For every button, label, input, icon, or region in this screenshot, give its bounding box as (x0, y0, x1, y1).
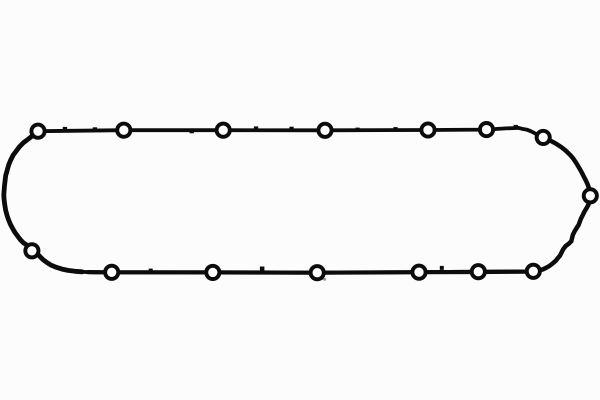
bolt hole top 7 (537, 131, 550, 144)
bolt hole bottom 2 (206, 266, 219, 279)
bolt holes (black rings, white centers) (25, 123, 597, 279)
bolt hole right end (584, 189, 597, 202)
tick marks on top rail (63, 125, 518, 133)
bolt hole top 6 (480, 123, 493, 136)
bolt hole bottom 5 (472, 265, 485, 278)
gasket outline (closed centerline loop) (4, 128, 591, 273)
right end curve (thicker stroke, with S-wiggle) (533, 137, 590, 271)
gray smudge below bottom-middle bolt hole (319, 276, 327, 281)
bolt hole bottom 3 (311, 266, 324, 279)
bolt hole left end (25, 244, 38, 257)
bolt hole top 3 (217, 124, 230, 137)
bolt hole bottom 6 (527, 265, 540, 278)
bolt hole top 2 (117, 124, 130, 137)
bolt hole bottom 4 (412, 266, 425, 279)
bolt hole top 5 (421, 123, 434, 136)
bottom rail (slightly thicker) (88, 272, 533, 273)
bolt hole top 1 (31, 125, 44, 138)
tick marks on bottom rail (149, 266, 444, 273)
left end arc (thicker stroke) (4, 131, 82, 272)
bolt hole top 4 (318, 124, 331, 137)
bolt hole bottom 1 (105, 266, 118, 279)
